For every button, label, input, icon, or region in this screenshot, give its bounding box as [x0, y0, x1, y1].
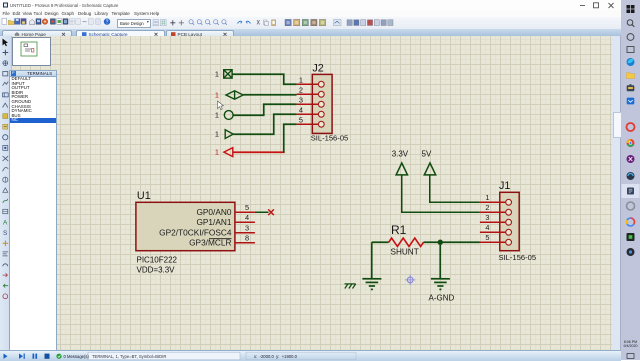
svg-text:S: S	[3, 230, 8, 237]
terminal T5 (selected, red arrow)	[224, 148, 233, 157]
menu bar	[0, 10, 621, 17]
wire T4 to J2 pin 4	[233, 114, 296, 134]
wire junction to A-GND	[439, 242, 441, 279]
ground symbol A-GND	[431, 279, 450, 290]
status bar	[0, 350, 621, 361]
chassis ground symbol	[345, 284, 356, 289]
terminal T1 BIDIR	[224, 70, 232, 78]
resistor R1	[372, 238, 480, 246]
terminal T2 (diamond)	[226, 91, 243, 99]
terminal T3 (circle)	[224, 111, 233, 120]
wire U1 pin 5 stub	[255, 211, 269, 213]
right edge / scrollbar	[612, 36, 621, 350]
origin marker	[405, 275, 415, 285]
left tool strip	[0, 36, 12, 350]
junction dot	[438, 240, 443, 245]
IC U1 body	[136, 202, 255, 250]
no-connect X marker	[268, 209, 274, 215]
J2 pin numbers 1-5	[299, 75, 303, 124]
wire R1 left to ground	[371, 242, 373, 279]
wire T2 to J2 pin 2	[243, 94, 296, 96]
wire T5 to J2 pin 5	[284, 124, 297, 153]
window title bar	[0, 0, 621, 10]
terminals panel	[9, 70, 57, 78]
power terminal 3.3V	[396, 163, 480, 212]
U1 pin name GP3/MCLR	[189, 238, 231, 248]
windows taskbar (right, vertical)	[621, 0, 640, 360]
wire T1 to J2 pin 1	[232, 74, 297, 84]
svg-text:?: ?	[106, 19, 109, 25]
power terminal 5V	[424, 163, 480, 202]
wire T3 to J2 pin 3	[233, 104, 297, 115]
mouse cursor	[218, 101, 224, 110]
ground symbol (left)	[362, 279, 381, 290]
connector J1	[480, 192, 519, 250]
terminal T4 (input arrow)	[225, 130, 233, 139]
J1 pin numbers 1-5	[485, 193, 489, 242]
overview minimap	[12, 37, 51, 66]
svg-text:A: A	[3, 219, 8, 226]
toolbar	[0, 17, 621, 30]
tab bar	[0, 29, 621, 36]
connector J2	[297, 74, 332, 133]
wire T5 horizontal (selected red)	[233, 151, 285, 153]
